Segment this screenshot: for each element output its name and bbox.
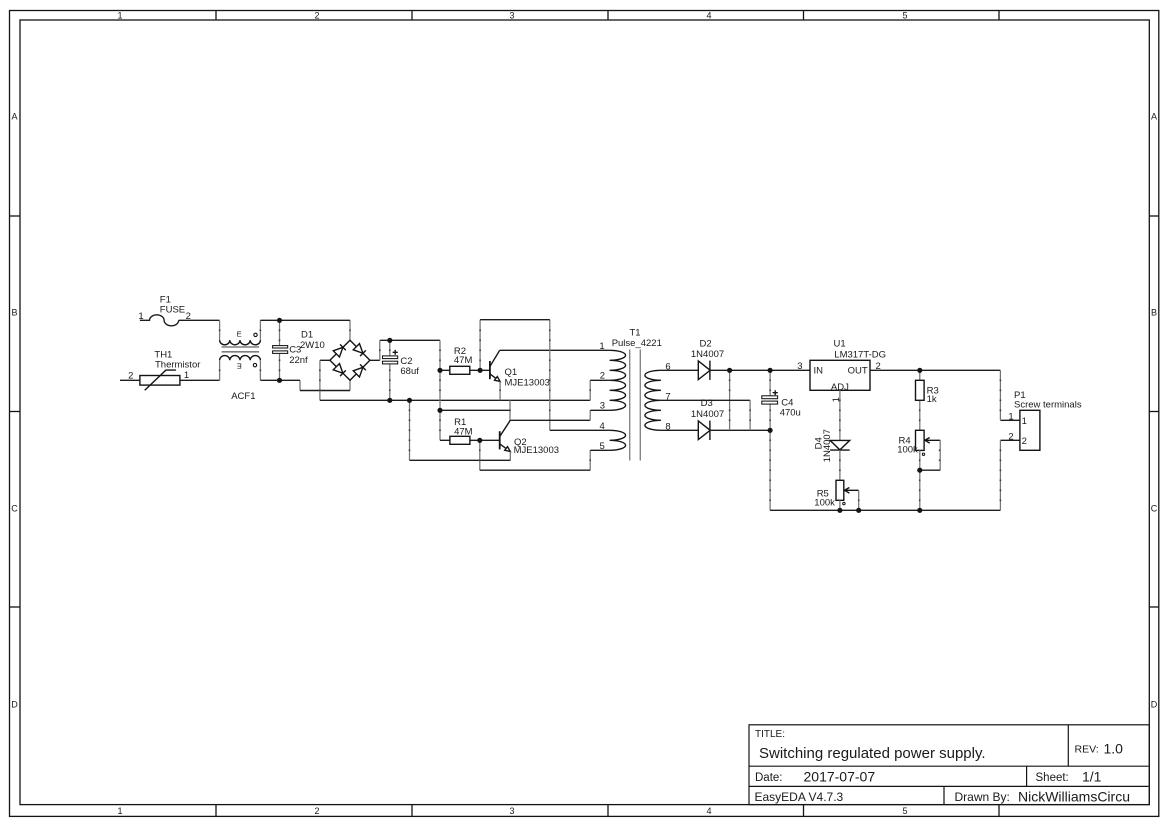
- svg-text:100k: 100k: [814, 497, 835, 508]
- wire: D3 cathode row to C4 bottom: [710, 429, 770, 431]
- thermistor TH1: [120, 349, 200, 390]
- svg-text:IN: IN: [814, 366, 824, 377]
- wire: output ground rail to P1 pin2: [770, 440, 1020, 510]
- node: emitter rail branch: [407, 398, 412, 403]
- svg-text:2: 2: [314, 806, 319, 816]
- svg-text:1N4007: 1N4007: [691, 409, 724, 420]
- svg-text:Thermistor: Thermistor: [155, 360, 200, 371]
- svg-text:3: 3: [600, 400, 605, 411]
- svg-text:1.0: 1.0: [1104, 741, 1124, 757]
- diode D2: [691, 339, 724, 380]
- svg-text:3: 3: [509, 11, 514, 21]
- wire: T1 pin2 stub: [590, 379, 609, 381]
- node: C3 top: [277, 318, 282, 323]
- wire: U1 ADJ to D4: [839, 390, 841, 440]
- wire: U1 OUT rail to P1 pin1: [870, 370, 1020, 420]
- resistor R2: [440, 346, 490, 375]
- svg-text:1/1: 1/1: [1082, 769, 1102, 785]
- wire: negative rail (C2-, Q1 emitter, to T1 pin2 riser): [320, 399, 590, 401]
- svg-text:Screw terminals: Screw terminals: [1014, 399, 1082, 410]
- svg-text:E: E: [237, 329, 242, 338]
- potentiometer R4: [897, 430, 940, 510]
- svg-text:2: 2: [314, 11, 319, 21]
- common-mode choke ACF1: [220, 329, 261, 401]
- wire: T1 pin3 stub: [590, 409, 609, 411]
- capacitor C3: [273, 320, 308, 380]
- svg-text:Date:: Date:: [755, 772, 783, 784]
- node: R2 right / Q1 base: [478, 368, 483, 373]
- svg-text:1k: 1k: [927, 394, 937, 405]
- svg-text:2: 2: [1022, 436, 1027, 447]
- wire: fuse to ACF1 top (AC line 1): [179, 319, 220, 321]
- svg-text:Drawn By:: Drawn By:: [955, 790, 1010, 804]
- svg-text:470u: 470u: [780, 408, 801, 419]
- svg-text:1: 1: [117, 806, 122, 816]
- junction nodes: [277, 318, 923, 513]
- svg-text:1: 1: [1022, 416, 1027, 427]
- T1 core: [629, 350, 631, 461]
- wire: R2 node loop to T1 pin4: [480, 320, 550, 431]
- wire: T1 pin5 stub: [590, 449, 609, 451]
- wire: D4 cathode to R5: [839, 450, 841, 480]
- svg-text:1N4007: 1N4007: [691, 349, 724, 360]
- node: C2 bottom: [387, 398, 392, 403]
- svg-text:2W10: 2W10: [300, 340, 325, 351]
- svg-text:47M: 47M: [454, 426, 473, 437]
- wire: D2 cathode to C4 top rail: [710, 369, 770, 371]
- svg-text:MJE13003: MJE13003: [514, 445, 559, 456]
- node: C4 bottom: [768, 428, 773, 433]
- svg-text:1: 1: [184, 370, 189, 381]
- svg-text:3: 3: [797, 361, 802, 372]
- wire: feed vertical from + rail to R2/R1: [439, 340, 441, 440]
- wire: T1 pin6 to D2: [661, 369, 698, 371]
- svg-text:A: A: [1151, 112, 1157, 122]
- svg-text:ACF1: ACF1: [231, 391, 255, 402]
- svg-text:LM317T-DG: LM317T-DG: [834, 349, 886, 360]
- svg-text:Switching regulated power supp: Switching regulated power supply.: [759, 745, 986, 762]
- node: mid branch: [437, 408, 442, 413]
- wire: thermistor to ACF1 bottom (AC line 2): [180, 379, 220, 381]
- wire: Q2 base node to T1 pin5: [480, 440, 590, 470]
- svg-text:2017-07-07: 2017-07-07: [804, 769, 876, 785]
- svg-text:NickWilliamsCircu: NickWilliamsCircu: [1018, 788, 1130, 804]
- svg-text:D1: D1: [301, 329, 313, 340]
- transformer T1: [599, 328, 670, 461]
- wire: branch node to Q2 collector row: [440, 410, 590, 420]
- transistor Q1: [490, 350, 550, 400]
- wire: T1 pin8 to D3: [661, 429, 698, 431]
- svg-text:2: 2: [128, 370, 133, 381]
- diode D4: [813, 429, 849, 462]
- T1 primary winding pins 1-3: [610, 350, 626, 410]
- wire: T1 pin7 center tap to C4 bottom: [661, 399, 750, 401]
- node: R4 bottom wiper: [917, 468, 922, 473]
- svg-text:TH1: TH1: [154, 349, 172, 360]
- potentiometer R5: [814, 480, 858, 510]
- svg-text:REV:: REV:: [1075, 744, 1099, 756]
- capacitor C2 (polarized): [383, 340, 420, 400]
- svg-text:4: 4: [706, 806, 711, 816]
- svg-text:B: B: [11, 308, 17, 318]
- svg-text:1: 1: [117, 11, 122, 21]
- wire: C4 bottom to output ground rail: [769, 430, 771, 510]
- svg-text:1: 1: [138, 311, 143, 322]
- T1 secondary winding pins 6-8: [645, 370, 661, 430]
- svg-text:FUSE: FUSE: [160, 304, 185, 315]
- wire: bridge plus output to C2 top rail: [370, 340, 440, 360]
- svg-text:A: A: [11, 112, 17, 122]
- svg-text:MJE13003: MJE13003: [505, 378, 550, 389]
- svg-text:3: 3: [509, 806, 514, 816]
- svg-text:5: 5: [902, 806, 907, 816]
- svg-text:2: 2: [600, 371, 605, 382]
- svg-text:4: 4: [706, 11, 711, 21]
- wire: Q1 collector to T1 pin1: [500, 349, 610, 351]
- node: R2 left: [437, 368, 442, 373]
- svg-text:E: E: [237, 361, 242, 370]
- grid dots on vertical wires: [219, 330, 1001, 502]
- resistor R3: [916, 370, 939, 430]
- svg-text:D: D: [1151, 700, 1158, 710]
- svg-text:Sheet:: Sheet:: [1036, 772, 1069, 784]
- svg-text:5: 5: [600, 441, 605, 452]
- T1 primary winding pins 4-5: [610, 430, 626, 450]
- node: R4 bottom rail: [917, 508, 922, 513]
- svg-text:U1: U1: [834, 339, 846, 350]
- title block: [749, 725, 1149, 805]
- wire: ACF1 bottom to bridge (with C3 tap): [260, 360, 350, 390]
- svg-text:D: D: [11, 700, 18, 710]
- fuse F1: [138, 294, 191, 326]
- svg-text:C: C: [11, 504, 18, 514]
- connector P1 screw terminals: [1008, 390, 1081, 450]
- node: R1 right / Q2 base: [477, 438, 482, 443]
- regulator U1 LM317T-DG: [797, 339, 886, 403]
- wire: Q2 emitter rail: [409, 400, 411, 460]
- svg-text:B: B: [1151, 308, 1157, 318]
- circuit: [120, 294, 1082, 510]
- node: R3 top: [917, 368, 922, 373]
- node: C4 top: [768, 368, 773, 373]
- svg-text:5: 5: [902, 11, 907, 21]
- transistor Q2: [500, 420, 559, 460]
- resistor R1: [440, 417, 500, 444]
- svg-text:EasyEDA V4.7.3: EasyEDA V4.7.3: [755, 790, 844, 804]
- svg-text:2: 2: [1008, 432, 1013, 443]
- node: D2 cathode: [727, 368, 732, 373]
- svg-text:Pulse_4221: Pulse_4221: [612, 338, 662, 349]
- bridge rectifier D1: [300, 329, 370, 380]
- svg-text:1: 1: [1008, 412, 1013, 423]
- node: C3 bottom: [277, 378, 282, 383]
- wire: D2/D3 cathode join vertical: [729, 370, 731, 430]
- svg-text:100k: 100k: [897, 445, 918, 456]
- svg-text:T1: T1: [630, 328, 641, 339]
- svg-text:OUT: OUT: [848, 366, 868, 377]
- svg-text:C: C: [1151, 504, 1158, 514]
- svg-text:47M: 47M: [454, 355, 473, 366]
- svg-text:4: 4: [600, 421, 605, 432]
- svg-text:1N4007: 1N4007: [822, 429, 833, 462]
- diode D3: [691, 398, 724, 440]
- svg-text:1: 1: [599, 341, 604, 352]
- wire: C4 top to U1 IN: [770, 369, 810, 371]
- svg-text:22nf: 22nf: [289, 355, 308, 366]
- capacitor C4 (polarized): [762, 370, 801, 430]
- node: R5 wiper rail: [856, 508, 861, 513]
- node: R5 bottom rail: [837, 508, 842, 513]
- node: C2 top: [387, 338, 392, 343]
- svg-text:68uf: 68uf: [400, 366, 419, 377]
- svg-text:TITLE:: TITLE:: [755, 729, 785, 740]
- wire: bridge minus output to negative rail: [320, 359, 330, 361]
- svg-text:D2: D2: [700, 339, 712, 350]
- wire: ACF1 top to bridge (with C3 tap): [260, 320, 350, 340]
